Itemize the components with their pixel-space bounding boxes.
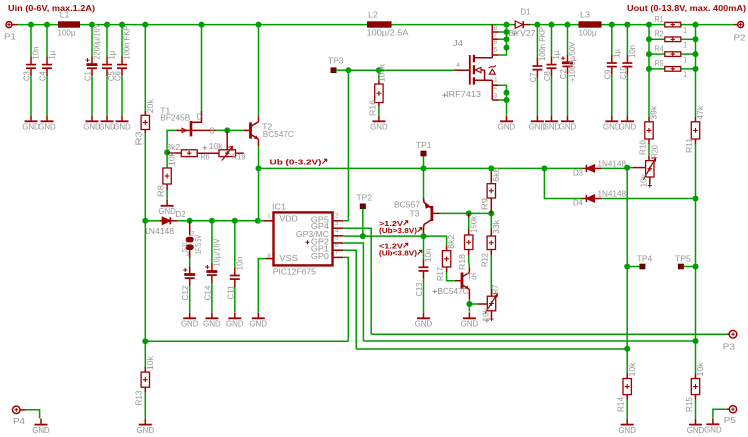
svg-text:1µ: 1µ <box>48 50 57 59</box>
origin cross D1 <box>512 31 516 35</box>
svg-text:GND: GND <box>137 426 155 435</box>
svg-text:GND: GND <box>113 123 131 132</box>
inductor L2 <box>367 21 392 27</box>
svg-text:C4: C4 <box>39 71 48 82</box>
svg-text:10n: 10n <box>235 257 244 271</box>
wire C6 top <box>121 25 123 57</box>
ground C3 <box>30 115 32 121</box>
junction J4 pin5 <box>504 45 510 51</box>
transistor T2 <box>258 117 260 122</box>
wire R3 node down to GP0 node <box>144 221 146 341</box>
junction top rail at C7 <box>534 22 540 28</box>
svg-text:6: 6 <box>494 39 498 46</box>
resistor R11 <box>695 117 697 122</box>
wire C8 bottom <box>551 76 553 115</box>
connector P5 <box>729 406 736 413</box>
junction top rail at C2 <box>565 22 571 28</box>
test point TP3 <box>331 68 336 73</box>
junction TP5 node <box>693 264 699 270</box>
wire C6 bottom <box>121 76 123 115</box>
connector P1 <box>6 22 12 28</box>
wire R12 to R7 <box>490 255 492 289</box>
junction R18 base node <box>466 210 472 216</box>
svg-text:10k: 10k <box>640 173 649 188</box>
wire D3 node to R20 <box>627 167 633 169</box>
ground R8 <box>166 200 168 206</box>
svg-text:GND: GND <box>370 123 388 132</box>
wire top rail P1 to L1 <box>18 24 58 26</box>
svg-text:D3: D3 <box>573 169 584 178</box>
ground T5 <box>468 312 470 318</box>
junction R5 left <box>646 66 652 72</box>
svg-text:1µ: 1µ <box>108 50 117 59</box>
wire D4 to R11 node <box>602 198 696 200</box>
wire R2 left lead <box>649 38 665 40</box>
junction top rail at R ladder left <box>646 22 652 28</box>
connector P2 <box>738 22 744 28</box>
junction T1 gate R6 R8 node <box>164 149 170 155</box>
junction C14 node <box>209 218 215 224</box>
resistor R6 <box>167 152 181 154</box>
wire GP0 route <box>343 257 348 341</box>
svg-text:Uout (0-13.8V, max. 400mA): Uout (0-13.8V, max. 400mA) <box>627 4 746 13</box>
svg-text:10k: 10k <box>146 355 155 370</box>
svg-text:BC557: BC557 <box>394 201 421 210</box>
svg-text:1: 1 <box>683 55 687 64</box>
svg-text:8k2: 8k2 <box>447 234 456 249</box>
wire D2 anode lead <box>145 220 160 222</box>
capacitor C13 <box>419 266 429 268</box>
ground C11 <box>234 312 236 318</box>
resistor R17 <box>446 246 448 251</box>
wire T5 node to R7 <box>469 303 477 305</box>
svg-text:GND: GND <box>203 320 221 329</box>
svg-text:C10: C10 <box>619 66 628 79</box>
junction R2 left <box>646 36 652 42</box>
wire C1 top <box>91 25 93 57</box>
svg-text:1: 1 <box>267 213 271 220</box>
wire R11 top <box>695 69 697 117</box>
resistor R2 <box>665 37 681 42</box>
transistor T1 <box>190 121 193 136</box>
svg-text:R13: R13 <box>135 390 144 406</box>
junction GP2 R15 node <box>693 338 699 344</box>
svg-text:D: D <box>197 112 202 121</box>
wire TP4 lead <box>627 266 639 268</box>
svg-text:1: 1 <box>683 41 687 50</box>
svg-text:TP1: TP1 <box>416 141 432 150</box>
svg-text:GND: GND <box>704 426 722 435</box>
inductor L3 <box>579 21 602 27</box>
svg-text:D2: D2 <box>176 210 187 219</box>
svg-text:8k2: 8k2 <box>167 143 181 152</box>
wire top rail L3 to R ladder <box>602 24 650 26</box>
origin cross J4 <box>442 93 446 97</box>
ground C9 <box>611 115 613 121</box>
resistor R8 body <box>163 168 171 184</box>
wire Ub line <box>259 167 424 169</box>
svg-text:SJ1: SJ1 <box>181 241 188 252</box>
origin cross T5 <box>433 289 437 293</box>
wire ladder left column <box>648 25 650 69</box>
svg-text:VDD: VDD <box>279 215 298 224</box>
wire T5 emitter <box>468 299 470 304</box>
svg-text:C9: C9 <box>603 69 612 80</box>
wire P4 to gnd <box>26 410 40 419</box>
svg-text:R20: R20 <box>651 145 660 159</box>
svg-text:TP4: TP4 <box>637 254 653 263</box>
junction R9 R12 node <box>488 210 494 216</box>
svg-text:TP5: TP5 <box>675 254 691 263</box>
wire C13 node to R17 <box>424 236 447 246</box>
wire T3 collector <box>423 233 425 236</box>
svg-text:C14: C14 <box>203 285 212 301</box>
origin cross R19 <box>203 146 207 150</box>
wire C10 bottom <box>626 74 628 115</box>
svg-text:R8: R8 <box>157 184 166 197</box>
wire ladder right column <box>695 25 697 69</box>
wire GP5 to riser <box>343 220 348 222</box>
wire J4 pin5 hook <box>492 54 498 56</box>
junction GP1 R14 node <box>624 346 630 352</box>
svg-text:R1: R1 <box>655 15 664 24</box>
wire R8 to gnd <box>166 190 168 200</box>
junction C11 node <box>232 218 238 224</box>
svg-text:47k: 47k <box>696 105 705 120</box>
inductor L1 <box>58 21 80 27</box>
junction R1 right <box>693 22 699 28</box>
junction top rail at C5 <box>104 22 110 28</box>
ground R16 <box>378 115 380 121</box>
svg-text:D1: D1 <box>521 8 532 17</box>
junction TP4 node <box>624 264 630 270</box>
junction D4 cathode node <box>693 196 699 202</box>
transistor J4 gate lead <box>454 69 469 71</box>
svg-text:10µ/16V: 10µ/16V <box>213 238 222 267</box>
wire TP5 node down <box>695 267 697 342</box>
wire C10 top <box>626 25 628 56</box>
wire R16 node to gate <box>379 69 454 71</box>
svg-text:2: 2 <box>335 213 339 220</box>
svg-text:C7: C7 <box>529 72 538 83</box>
ground R14 <box>626 419 628 425</box>
trimmer R19 <box>197 152 219 154</box>
svg-text:10n: 10n <box>424 248 433 262</box>
ic IC1 pin2 stub <box>333 220 343 222</box>
wire GP0 to R13 node <box>145 340 348 342</box>
svg-text:1: 1 <box>494 76 498 83</box>
wire R16 top <box>378 70 380 79</box>
svg-text:L2: L2 <box>368 11 379 20</box>
wire C8 top <box>551 25 553 57</box>
svg-text:20k: 20k <box>146 98 155 113</box>
wire top rail L1 to L2 <box>80 24 367 26</box>
junction J4 pin6 <box>504 36 510 42</box>
svg-text:GND: GND <box>181 320 199 329</box>
wire R15 top <box>695 341 697 374</box>
wire Ub line 3 <box>491 167 544 169</box>
transistor J4 <box>469 55 471 85</box>
junction top rail at C3 <box>28 22 34 28</box>
origin cross R7 <box>485 318 489 322</box>
wire TP2 to C13 node <box>363 235 424 237</box>
wire TP4 node down <box>626 267 628 349</box>
svg-text:10k: 10k <box>168 151 177 166</box>
junction top rail at J4 drain <box>504 22 510 28</box>
wire R11 bottom to D4 node <box>695 144 697 199</box>
junction C13 node <box>421 233 427 239</box>
resistor R12 body <box>490 229 492 236</box>
jumper SJ1 <box>189 221 191 236</box>
svg-text:GND: GND <box>461 320 479 329</box>
capacitor C8 <box>547 64 557 66</box>
svg-text:100k: 100k <box>377 63 386 82</box>
wire R3 top <box>144 25 146 111</box>
svg-text:VSS: VSS <box>279 254 298 263</box>
wire C7 top <box>536 25 538 59</box>
svg-text:3: 3 <box>494 93 498 100</box>
junction R4 right <box>693 51 699 57</box>
capacitor C6 <box>117 64 127 66</box>
svg-text:P1: P1 <box>4 33 17 42</box>
wire R10 top <box>648 69 650 117</box>
svg-text:C6: C6 <box>114 71 123 82</box>
ground J4 source <box>506 115 508 121</box>
svg-text:33k: 33k <box>492 219 501 234</box>
svg-text:100µ/2.5A: 100µ/2.5A <box>367 28 410 37</box>
wire C1 bottom <box>91 76 93 115</box>
wire C9 bottom <box>611 74 613 115</box>
wire C13 bottom <box>423 279 425 313</box>
wire VSS to gnd <box>258 259 265 312</box>
wire T1 drain up <box>201 25 203 111</box>
capacitor C4 <box>42 64 52 66</box>
junction TP1 node <box>421 165 427 171</box>
svg-text:P4: P4 <box>13 417 26 426</box>
junction GP0 R13 node <box>142 338 148 344</box>
junction R19 wiper on source line <box>224 127 230 133</box>
wire R5 right lead <box>681 68 696 70</box>
svg-text:10n: 10n <box>32 47 41 60</box>
ground P5 <box>712 418 714 424</box>
svg-text:100µ: 100µ <box>58 28 76 37</box>
wire R3 to D2 node <box>144 133 146 221</box>
svg-text:1N4148: 1N4148 <box>598 190 627 199</box>
svg-text:R11: R11 <box>685 137 694 153</box>
resistor R14 <box>626 374 628 379</box>
transistor T1 drain lead <box>192 111 201 122</box>
wire R14 top <box>626 349 628 374</box>
svg-text:10k: 10k <box>481 307 490 322</box>
op-amp IC1 <box>274 212 333 265</box>
junction J4 pin3 <box>504 97 510 103</box>
wire SJ1 to C12 <box>189 258 191 267</box>
svg-text:C3: C3 <box>23 71 32 82</box>
wire TP2 lead <box>362 209 364 237</box>
wire GP5 riser <box>347 70 349 221</box>
wire T2 collector <box>258 25 260 117</box>
ground C4 <box>46 115 48 121</box>
resistor R9 <box>490 168 492 183</box>
svg-text:R9: R9 <box>481 197 490 210</box>
svg-text:Ub (0-3.2V): Ub (0-3.2V) <box>270 158 323 167</box>
wire C3 bottom <box>30 76 32 115</box>
wire T3 base <box>440 212 469 214</box>
svg-text:C12: C12 <box>181 285 190 301</box>
svg-text:1N4148: 1N4148 <box>598 160 627 169</box>
wire P5 to gnd <box>713 409 727 418</box>
resistor R13 <box>144 367 146 372</box>
resistor R1 <box>665 22 681 27</box>
junction D2 anode node <box>142 218 148 224</box>
wire R4 right lead <box>681 53 696 55</box>
capacitor C12 <box>184 273 195 276</box>
svg-text:GND: GND <box>32 426 50 435</box>
connector P4 <box>12 406 20 414</box>
junction D3 cathode node <box>624 165 630 171</box>
svg-text:1N4148: 1N4148 <box>144 227 175 236</box>
svg-text:BF245B: BF245B <box>160 114 190 123</box>
wire R14 bottom <box>626 400 628 419</box>
wire J4 pin5 hook green <box>499 48 507 56</box>
wire R2 right lead <box>681 38 696 40</box>
svg-text:1F/5.5V: 1F/5.5V <box>194 235 203 254</box>
svg-text:GND: GND <box>158 207 176 216</box>
wire C7 bottom <box>536 77 538 115</box>
capacitor C3 <box>26 64 36 66</box>
wire R10 to R20 <box>648 144 650 156</box>
svg-text:GND: GND <box>38 123 56 132</box>
wire R5 left lead <box>649 68 665 70</box>
ic IC1 pin1 stub <box>264 220 273 222</box>
trimmer R20 <box>648 156 650 161</box>
wire J4 source down <box>506 93 508 115</box>
svg-text:C8: C8 <box>543 71 552 82</box>
svg-text:1: 1 <box>683 70 687 79</box>
svg-text:GND: GND <box>226 320 244 329</box>
svg-text:8: 8 <box>267 253 271 260</box>
svg-text:(Ub>3.8V): (Ub>3.8V) <box>379 226 418 235</box>
wire R17 to T5 base <box>447 272 455 281</box>
svg-text:IRF7413: IRF7413 <box>446 90 482 99</box>
ground P4 <box>40 419 42 425</box>
ic IC1 pin3 stub <box>333 227 343 229</box>
wire C11 bottom <box>234 287 236 313</box>
capacitor C11 <box>230 275 240 277</box>
resistor R3 <box>144 111 146 116</box>
wire R16 bottom <box>378 107 380 115</box>
ground C6 <box>121 115 123 121</box>
svg-text:TP2: TP2 <box>357 194 373 203</box>
junction top rail at R3 <box>142 22 148 28</box>
wire C11 top <box>234 221 236 268</box>
junction top rail at C6 <box>119 22 125 28</box>
transistor T3 <box>424 198 432 208</box>
wire C2 top <box>567 25 569 55</box>
test point TP4 <box>640 264 645 269</box>
wire C14 to C11 <box>212 220 235 222</box>
junction R9 top <box>488 165 494 171</box>
wire R15 bottom <box>695 400 697 419</box>
junction J4 pin7 <box>504 29 510 35</box>
wire TP3 node to R16 <box>348 69 379 71</box>
wire C4 top <box>46 25 48 57</box>
svg-text:L1: L1 <box>60 11 71 20</box>
wire Ub line 2 <box>424 167 492 169</box>
capacitor C14 <box>206 270 217 273</box>
wire T3 emitter from Ub <box>423 168 425 197</box>
junction R16 node <box>376 67 382 73</box>
ground C8 <box>551 115 553 121</box>
wire base node ext <box>469 212 492 214</box>
wire top rail L2 to D1 <box>392 24 514 26</box>
svg-text:100µ: 100µ <box>579 28 597 37</box>
ic IC1 pin8 stub <box>265 258 273 260</box>
wire TP3 to junction <box>336 69 348 71</box>
svg-text:4: 4 <box>456 62 460 69</box>
junction VDD pin node <box>255 218 261 224</box>
ic IC1 pin6 stub <box>333 249 343 251</box>
ground C7 <box>536 115 538 121</box>
svg-text:R16: R16 <box>368 99 377 116</box>
wire J4 pin3 hook green <box>499 99 507 101</box>
test point TP1 <box>421 151 426 156</box>
junction TP3 node <box>345 67 351 73</box>
svg-text:100n FKP: 100n FKP <box>123 26 132 60</box>
wire C9 top <box>611 25 613 56</box>
wire D3 node down <box>626 168 628 267</box>
test point TP5 <box>678 264 683 269</box>
junction top rail at T2 collector <box>256 22 262 28</box>
resistor R10 <box>648 117 650 122</box>
svg-text:C13: C13 <box>415 282 424 297</box>
wire R1 right lead to P2 <box>681 24 734 26</box>
resistor R4 <box>665 52 681 57</box>
wire T5 collector to R18 <box>468 255 471 268</box>
wire J4 pin7 hook <box>492 31 498 33</box>
svg-text:R15: R15 <box>685 396 694 412</box>
wire C13 top <box>423 236 425 259</box>
wire GP3 line to TP2 <box>343 235 363 237</box>
wire SJ1 to C14 <box>190 220 212 222</box>
junction SJ1 node <box>187 218 193 224</box>
ic IC1 pin5 stub <box>333 242 343 244</box>
svg-text:T3: T3 <box>410 210 421 219</box>
wire gate node to R8 <box>166 152 168 168</box>
junction top rail at C10 <box>624 22 630 28</box>
svg-text:5: 5 <box>494 47 498 54</box>
junction Ub D branch <box>541 165 547 171</box>
wire T2 emitter to Ub node <box>258 146 260 168</box>
junction top rail at C8 <box>549 22 555 28</box>
wire J4 pin2 hook green <box>499 85 507 92</box>
ground C2 <box>567 115 569 121</box>
wire T5 node lead down <box>468 304 470 312</box>
svg-text:S: S <box>210 126 215 135</box>
svg-text:+1000µ/50V: +1000µ/50V <box>568 41 577 82</box>
svg-text:R5: R5 <box>655 59 664 68</box>
svg-text:1: 1 <box>683 26 687 35</box>
trimmer R7 <box>477 303 487 305</box>
wire T1 gate bend <box>167 130 175 152</box>
wire GP3 lead <box>342 235 344 237</box>
trimmer R7 top lead <box>491 289 493 296</box>
svg-text:R10: R10 <box>638 139 647 155</box>
resistor R16 <box>378 80 380 85</box>
svg-text:T5: T5 <box>467 272 478 281</box>
wire GP1 to R14 node <box>356 348 627 350</box>
svg-text:IC1: IC1 <box>272 202 287 211</box>
